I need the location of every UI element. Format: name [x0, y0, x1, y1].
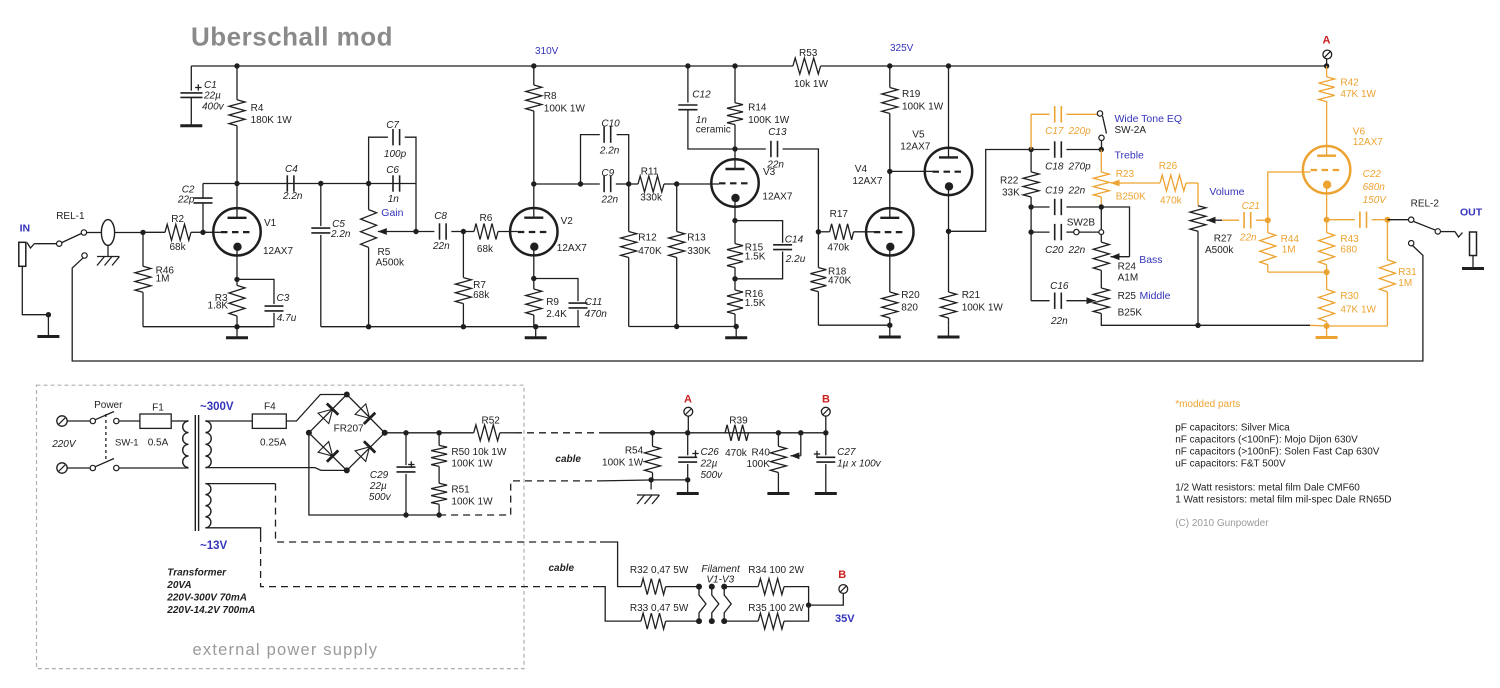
terminal B psu [821, 407, 830, 432]
svg-text:470K: 470K [828, 276, 852, 287]
wire V6 grid [1268, 172, 1311, 220]
svg-text:325V: 325V [890, 43, 914, 54]
svg-text:A: A [684, 394, 692, 406]
label cap notes [1175, 423, 1380, 470]
svg-text:68k: 68k [477, 244, 494, 255]
wire IN sleeve [22, 266, 48, 314]
capacitor C6 [386, 165, 399, 205]
resistor R18 [810, 232, 851, 325]
potentiometer R24 [1093, 242, 1138, 283]
resistor R3 [208, 285, 245, 326]
resistor R46 [135, 232, 174, 326]
svg-text:12AX7: 12AX7 [1353, 137, 1383, 148]
relay REL-2 contact C [1409, 241, 1414, 246]
svg-text:external power supply: external power supply [193, 641, 379, 659]
svg-text:1n: 1n [388, 194, 400, 205]
ground C27 [815, 464, 837, 493]
svg-text:500v: 500v [369, 492, 392, 503]
label ~13V [200, 540, 228, 552]
ground chassis REL-1 [97, 245, 120, 265]
svg-text:B250K: B250K [1116, 192, 1146, 203]
resistor R52 [474, 416, 515, 441]
svg-text:R51: R51 [451, 485, 470, 496]
svg-text:R17: R17 [830, 209, 849, 220]
svg-text:A500k: A500k [1205, 245, 1234, 256]
node grid1-left [140, 230, 145, 235]
node bottom2-R7 [461, 324, 466, 329]
wire V5 cathode [948, 195, 950, 292]
resistor R16 [727, 289, 766, 327]
wire filament top right [724, 586, 758, 588]
svg-text:C16: C16 [1050, 281, 1069, 292]
resistor R9 [526, 289, 567, 327]
svg-text:1.5K: 1.5K [745, 252, 766, 263]
svg-text:R53: R53 [799, 48, 818, 59]
svg-text:C7: C7 [386, 120, 399, 131]
wire transformer-bridge [205, 468, 346, 471]
resistor R30 [1319, 272, 1377, 326]
terminal 220V-N [57, 463, 67, 473]
node R43-R30 [1324, 269, 1330, 275]
fuse F4 [205, 395, 346, 449]
resistor R53 [793, 48, 829, 90]
svg-text:~13V: ~13V [200, 540, 228, 552]
wire REL-1 bypass [72, 246, 1423, 362]
diode bridge D4 [347, 433, 385, 471]
filament V1-V3 [696, 584, 731, 625]
svg-text:100K: 100K [747, 459, 771, 470]
svg-text:68k: 68k [170, 242, 187, 253]
ground stage1 [226, 327, 248, 338]
wire V4-V5 grid [890, 170, 933, 172]
capacitor C19 [1031, 186, 1101, 216]
capacitor C5 [311, 184, 351, 327]
svg-text:500v: 500v [701, 470, 724, 481]
node C19-right [1099, 204, 1104, 209]
svg-text:100K 1W: 100K 1W [451, 459, 493, 470]
resistor R15 [727, 243, 766, 268]
ground stage2 [525, 327, 547, 338]
resistor R51 [431, 477, 493, 515]
node R51 bottom [436, 512, 441, 517]
terminal B 35V [839, 585, 848, 594]
svg-text:820: 820 [901, 303, 918, 314]
label IN [20, 223, 31, 235]
svg-text:R24: R24 [1118, 262, 1137, 273]
svg-text:C21: C21 [1242, 201, 1260, 212]
svg-text:470k: 470k [827, 243, 850, 254]
svg-text:REL-1: REL-1 [56, 211, 85, 222]
svg-text:A: A [1323, 35, 1331, 47]
resistor R44 [1260, 220, 1327, 272]
node R54 bottom [648, 477, 653, 482]
switch SW-2A [1097, 111, 1106, 150]
svg-text:100K 1W: 100K 1W [962, 303, 1004, 314]
svg-text:C11: C11 [585, 297, 603, 308]
label REL-2 [1411, 199, 1440, 210]
label A node psu [684, 394, 692, 406]
node C27 top [823, 430, 828, 435]
svg-text:47K 1W: 47K 1W [1340, 89, 1376, 100]
svg-text:100p: 100p [384, 149, 407, 160]
svg-text:10k 1W: 10k 1W [794, 79, 828, 90]
resistor R42 [1319, 66, 1377, 146]
svg-text:220V-14.2V 700mA: 220V-14.2V 700mA [166, 605, 255, 616]
svg-text:2.2n: 2.2n [282, 191, 303, 202]
svg-text:310V: 310V [535, 46, 559, 57]
node R40 top [776, 430, 781, 435]
node anode1-C5 [318, 181, 323, 186]
capacitor C22 [1327, 169, 1388, 228]
relay REL-1 contact B [81, 230, 86, 235]
switch SW-1 link [105, 414, 107, 462]
node C13-R17 [816, 229, 821, 234]
label resistor notes [1175, 483, 1391, 506]
node rail-R14 [732, 63, 737, 68]
svg-text:22n: 22n [600, 195, 618, 206]
potentiometer R23 [1093, 150, 1146, 208]
node C9-left [578, 181, 583, 186]
wire filament bottom right [724, 620, 758, 622]
label Power [94, 400, 123, 411]
svg-text:R26: R26 [1159, 161, 1178, 172]
relay REL-1 contact C [82, 253, 87, 258]
svg-text:330k: 330k [640, 193, 663, 204]
svg-text:C17: C17 [1045, 126, 1064, 137]
svg-text:12AX7: 12AX7 [557, 243, 587, 254]
resistor R43 [1319, 233, 1360, 273]
resistor R26 [1125, 161, 1198, 207]
svg-text:4.7u: 4.7u [277, 313, 297, 324]
svg-text:680: 680 [1340, 245, 1357, 256]
wire SW1b-transformer [119, 467, 187, 469]
capacitor C21 [1222, 201, 1268, 244]
svg-text:C8: C8 [434, 211, 447, 222]
ground IN [37, 315, 59, 337]
switch SW-1b [67, 459, 119, 471]
wire R15-R16 [734, 268, 736, 290]
svg-text:C19: C19 [1045, 186, 1064, 197]
svg-text:FR207: FR207 [334, 424, 364, 435]
resistor R33 [630, 603, 699, 629]
resistor R22 [1000, 150, 1039, 208]
svg-text:C22: C22 [1363, 169, 1382, 180]
resistor R34 [748, 565, 808, 605]
svg-text:0.25A: 0.25A [260, 438, 286, 449]
svg-text:2.2n: 2.2n [330, 229, 351, 240]
svg-text:1M: 1M [1282, 245, 1296, 256]
svg-text:R25: R25 [1118, 291, 1137, 302]
svg-text:Treble: Treble [1115, 150, 1145, 162]
svg-text:uF capacitors: F&T 500V: uF capacitors: F&T 500V [1175, 459, 1286, 470]
wiper R27 [1207, 217, 1223, 224]
relay REL-2 contact B [1435, 229, 1440, 234]
svg-text:C26: C26 [701, 447, 720, 458]
wiper R24 [1111, 253, 1130, 260]
svg-text:Transformer: Transformer [167, 568, 227, 579]
label REL-1 [56, 211, 85, 222]
svg-text:R22: R22 [1000, 176, 1019, 187]
node cathode5 [946, 229, 951, 234]
wire V4 cathode [889, 256, 891, 293]
node bottom2-R9 [533, 324, 538, 329]
node R54 top [650, 430, 655, 435]
svg-text:cable: cable [555, 454, 581, 465]
resistor R32 [630, 565, 699, 595]
svg-text:R33 0,47 5W: R33 0,47 5W [630, 603, 689, 614]
node anode1-C7 [366, 181, 371, 186]
capacitor C14 [735, 221, 806, 279]
capacitor C29 [369, 433, 416, 515]
capacitor C8 [416, 211, 463, 252]
label Treble [1115, 150, 1145, 162]
svg-text:cable: cable [549, 563, 575, 574]
svg-text:330K: 330K [687, 246, 711, 257]
svg-text:100K 1W: 100K 1W [544, 104, 586, 115]
node bottom6 [1324, 323, 1330, 329]
svg-text:V2: V2 [561, 216, 574, 227]
capacitor C18 [1031, 141, 1101, 172]
svg-text:OUT: OUT [1460, 207, 1483, 219]
svg-text:R39: R39 [729, 416, 748, 427]
label FR207 [334, 424, 364, 435]
svg-text:V1: V1 [264, 218, 277, 229]
svg-text:nF capacitors (>100nF): Solen: nF capacitors (>100nF): Solen Fast Cap 6… [1175, 447, 1380, 458]
svg-text:SW2B: SW2B [1067, 218, 1096, 229]
svg-text:B: B [838, 569, 846, 581]
capacitor C1 [180, 66, 224, 125]
resistor R39 [725, 416, 748, 460]
capacitor C9 [581, 168, 629, 206]
capacitor C20 [1031, 224, 1086, 256]
label cable 1 [555, 454, 581, 465]
node cathode2 [531, 276, 536, 281]
svg-text:SW-1: SW-1 [115, 438, 139, 449]
label Wide Tone EQ [1115, 113, 1183, 125]
svg-text:2.2n: 2.2n [599, 146, 620, 157]
relay REL-2 lever [1414, 222, 1436, 231]
node rail-V5 [946, 63, 951, 68]
svg-text:100K 1W: 100K 1W [902, 102, 944, 113]
node anode1-R4 [234, 181, 239, 186]
node stack-treble [1099, 147, 1104, 152]
svg-text:1M: 1M [156, 274, 170, 285]
potentiometer R40 [747, 433, 787, 473]
svg-text:100K 1W: 100K 1W [602, 458, 644, 469]
wire V2 cathode [533, 255, 535, 289]
resistor R8 [526, 66, 586, 184]
node bridge right [382, 430, 388, 436]
tube V4 [852, 164, 913, 256]
svg-text:V3: V3 [763, 167, 776, 178]
capacitor C11 [534, 279, 607, 327]
svg-text:C14: C14 [785, 235, 804, 246]
capacitor C2 [177, 184, 213, 233]
resistor R19 [882, 66, 944, 171]
label 220V [51, 439, 77, 450]
ground V5 [938, 325, 960, 337]
node bridge bottom [344, 467, 350, 473]
wire R24 bypass [1101, 207, 1129, 257]
node C29 top [403, 430, 408, 435]
svg-text:R35 100 2W: R35 100 2W [748, 603, 804, 614]
ground chassis R54 [637, 480, 660, 504]
svg-text:150V: 150V [1363, 195, 1388, 206]
svg-text:22µ: 22µ [369, 481, 387, 492]
cable DC minus [439, 480, 651, 515]
switch SW-1a [67, 412, 119, 424]
node C8-R6 [461, 229, 466, 234]
fuse F1 [119, 403, 187, 449]
svg-text:2.2u: 2.2u [785, 254, 806, 265]
ground C26 [677, 480, 699, 494]
wire V5 to tonestack [949, 150, 1032, 232]
wire 310V/325V supply rail [191, 65, 1326, 67]
ground C1 [180, 124, 202, 127]
transformer T1 [183, 415, 212, 531]
svg-text:C10: C10 [601, 119, 620, 130]
svg-text:220V: 220V [51, 439, 77, 450]
svg-text:2.4K: 2.4K [546, 309, 567, 320]
svg-text:pF capacitors: Silver Mica: pF capacitors: Silver Mica [1175, 423, 1290, 434]
wire bottom stage1 [143, 326, 271, 328]
wire B+ distribution [651, 432, 826, 434]
wire R24-R25 [1100, 270, 1102, 288]
potentiometer R27 [1190, 206, 1234, 326]
svg-text:~300V: ~300V [200, 401, 234, 413]
node C20-left [1028, 229, 1033, 234]
svg-text:12AX7: 12AX7 [263, 246, 293, 257]
label Volume [1209, 186, 1244, 198]
svg-text:R32 0,47 5W: R32 0,47 5W [630, 565, 689, 576]
svg-text:Power: Power [94, 400, 123, 411]
svg-text:22n: 22n [432, 241, 450, 252]
svg-text:C9: C9 [601, 168, 614, 179]
capacitor C7 [369, 120, 416, 232]
resistor R50 [431, 433, 507, 477]
wire stack bottom [1101, 314, 1310, 326]
label B node psu [822, 394, 830, 406]
capacitor C26 [678, 433, 723, 481]
resistor R31 [1379, 220, 1417, 326]
svg-text:A500k: A500k [376, 258, 405, 269]
svg-text:Middle: Middle [1140, 290, 1171, 302]
svg-text:R13: R13 [687, 233, 706, 244]
svg-text:R20: R20 [901, 290, 920, 301]
svg-text:22n: 22n [1068, 186, 1086, 197]
jack IN [19, 242, 57, 266]
wire stack left [1030, 207, 1032, 301]
ground stage3 [725, 327, 747, 338]
svg-text:Volume: Volume [1209, 186, 1244, 198]
capacitor C12 [678, 66, 735, 149]
svg-text:220p: 220p [1068, 126, 1092, 137]
svg-text:680n: 680n [1363, 182, 1386, 193]
node rail-R8 [531, 63, 536, 68]
resistor R6 [463, 213, 517, 255]
capacitor C16 [1031, 281, 1085, 327]
svg-text:V5: V5 [912, 130, 925, 141]
svg-text:R12: R12 [638, 233, 657, 244]
diode bridge D2 [347, 395, 385, 433]
svg-text:Uberschall mod: Uberschall mod [191, 22, 393, 52]
tube V2 [510, 184, 587, 255]
svg-text:470k: 470k [1160, 196, 1183, 207]
svg-text:470K: 470K [638, 246, 662, 257]
svg-text:22µ: 22µ [203, 90, 221, 101]
svg-text:Bass: Bass [1139, 254, 1162, 266]
svg-text:C3: C3 [277, 293, 290, 304]
svg-text:C6: C6 [386, 165, 399, 176]
svg-text:R21: R21 [962, 290, 981, 301]
svg-text:12AX7: 12AX7 [852, 176, 882, 187]
wire DC plus [385, 432, 474, 434]
node bottom3-R16 [734, 324, 739, 329]
svg-text:35V: 35V [835, 613, 855, 625]
cable filament top [205, 484, 641, 587]
svg-text:C18: C18 [1045, 162, 1064, 173]
resistor R17 [818, 209, 873, 254]
svg-text:IN: IN [20, 223, 31, 235]
ground V6 [1316, 326, 1338, 338]
svg-text:C27: C27 [837, 447, 856, 458]
label modded parts [1175, 399, 1240, 410]
relay REL-1 contact A [57, 241, 62, 246]
node R11-right [674, 181, 679, 186]
svg-text:100K 1W: 100K 1W [748, 115, 790, 126]
node bridge top [344, 392, 350, 398]
wire V6 cathode [1326, 193, 1328, 232]
label 310V [535, 46, 559, 57]
node C19-left [1028, 204, 1033, 209]
svg-text:F4: F4 [264, 402, 276, 413]
svg-text:REL-2: REL-2 [1411, 199, 1440, 210]
label Gain [381, 207, 403, 219]
wire C17 loop [1031, 114, 1097, 149]
wire REL2-out [1441, 232, 1463, 237]
label ~300V [200, 401, 234, 413]
svg-text:C12: C12 [692, 90, 711, 101]
node anode4 [887, 169, 892, 174]
node V6 grid [1265, 217, 1271, 223]
wire B 35V [809, 593, 844, 605]
diode bridge D3 [309, 433, 347, 471]
label transformer spec [166, 568, 255, 617]
label SW-1 [115, 438, 139, 449]
svg-text:R31: R31 [1398, 267, 1417, 278]
svg-text:22n: 22n [1239, 233, 1257, 244]
svg-text:12AX7: 12AX7 [900, 142, 930, 153]
wire bottom stage2 [321, 326, 580, 328]
node R40 wiper [798, 430, 803, 435]
wire DC minus [309, 433, 439, 515]
svg-text:47K 1W: 47K 1W [1340, 305, 1376, 316]
tube V5 [900, 66, 972, 195]
svg-text:nF capacitors (<100nF): Mojo D: nF capacitors (<100nF): Mojo Dijon 630V [1175, 435, 1358, 446]
svg-text:B25K: B25K [1118, 308, 1143, 319]
resistor R11 [629, 167, 677, 204]
title [191, 22, 393, 52]
wire C22-REL2 [1387, 219, 1408, 221]
node cathode3-mid [732, 276, 737, 281]
label Bass [1139, 254, 1162, 266]
wire R18-gnd [818, 324, 889, 326]
svg-text:R54: R54 [625, 446, 644, 457]
svg-text:Wide Tone EQ: Wide Tone EQ [1115, 113, 1183, 125]
node bottom3-R13 [674, 324, 679, 329]
terminal A top [1323, 50, 1332, 59]
label 35V [835, 613, 855, 625]
